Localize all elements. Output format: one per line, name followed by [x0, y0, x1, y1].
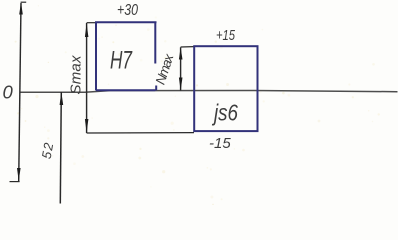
svg-text:H7: H7	[110, 47, 133, 75]
svg-text:Smax: Smax	[68, 55, 85, 95]
left dimension top arrow	[19, 2, 23, 14]
Smax top connector	[87, 22, 97, 24]
Nmax bottom arrow	[179, 78, 183, 91]
Smax bottom arrow	[85, 119, 89, 133]
left dimension top tick	[21, 1, 27, 3]
52 dimension arrow	[60, 92, 64, 105]
H7 tolerance zone box	[95, 22, 157, 90]
52 dimension line	[60, 92, 61, 204]
scan speckle noise	[15, 5, 380, 205]
Nmax top extension to js6	[181, 46, 194, 48]
svg-text:-15: -15	[209, 135, 231, 152]
Smax top arrow	[85, 23, 89, 37]
js6 tolerance zone box	[194, 46, 257, 131]
svg-text:0: 0	[3, 82, 14, 103]
Nmax top arrow	[179, 47, 183, 59]
left dimension line	[19, 3, 21, 181]
Smax bottom extension to js6	[87, 132, 194, 134]
svg-text:+30: +30	[117, 2, 138, 19]
zero line	[20, 91, 398, 93]
svg-text:+15: +15	[216, 27, 235, 44]
Smax dimension line	[86, 23, 88, 133]
left dimension bottom tick	[10, 181, 20, 183]
Nmax dimension line	[180, 47, 182, 90]
left dimension bottom arrow	[17, 168, 21, 181]
svg-text:js6: js6	[212, 100, 239, 126]
